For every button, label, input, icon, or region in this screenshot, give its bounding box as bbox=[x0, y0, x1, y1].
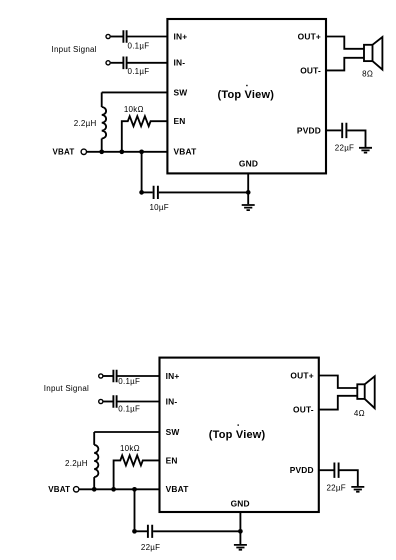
wire J3 to C5 bbox=[103, 375, 112, 377]
svg-text:OUT-: OUT- bbox=[293, 405, 314, 415]
capacitor C4 22µF bbox=[342, 123, 346, 138]
svg-text:(Top View): (Top View) bbox=[209, 429, 266, 441]
wire C5 to IN+ bbox=[118, 375, 160, 377]
pin OUT- label (U2) bbox=[293, 405, 314, 415]
IC U2 (bottom) package outline bbox=[160, 358, 319, 512]
wire SW pin bbox=[102, 91, 168, 93]
input terminal J1 (IN+) bbox=[106, 34, 110, 38]
ground symbol (bottom middle) bbox=[234, 545, 247, 550]
terminal VBAT (top) bbox=[81, 149, 86, 154]
pin EN label (U2) bbox=[166, 455, 178, 465]
svg-text:PVDD: PVDD bbox=[290, 465, 314, 475]
value label 10kΩ (R1) bbox=[124, 105, 144, 114]
value label 22µF (C8) bbox=[326, 483, 345, 492]
svg-text:GND: GND bbox=[239, 158, 258, 168]
label VBAT net (top) bbox=[53, 147, 75, 156]
value label 8Ω (SPK1) bbox=[362, 69, 373, 78]
junction node L1/VBAT bbox=[99, 149, 104, 154]
wire C2 to IN- bbox=[128, 62, 168, 64]
wire J1 to C1 bbox=[111, 36, 123, 38]
wire C1 to IN+ bbox=[128, 36, 168, 38]
IC U1 label (Top View) bbox=[218, 85, 275, 101]
svg-text:0.1µF: 0.1µF bbox=[118, 377, 140, 386]
svg-text:10kΩ: 10kΩ bbox=[124, 105, 144, 114]
speaker SPK1 bbox=[364, 37, 382, 70]
svg-text:VBAT: VBAT bbox=[166, 484, 190, 494]
inductor L2 2.2µH bbox=[94, 432, 98, 489]
resistor R2 10kΩ bbox=[114, 455, 160, 489]
svg-text:10kΩ: 10kΩ bbox=[120, 444, 140, 453]
capacitor C5 0.1µF bbox=[113, 370, 116, 383]
wire PVDD to C8 bbox=[319, 469, 334, 471]
input terminal J2 (IN-) bbox=[106, 61, 110, 65]
wire PVDD to C4 bbox=[326, 129, 341, 131]
pin OUT+ label (U1) bbox=[298, 31, 321, 41]
pin IN+ label (U1) bbox=[174, 32, 188, 42]
svg-text:OUT+: OUT+ bbox=[290, 370, 313, 380]
value label 10µF (C3) bbox=[149, 203, 168, 212]
wire C7 to GND node bbox=[153, 530, 240, 532]
value label 0.1µF (C6) bbox=[118, 404, 140, 413]
ground symbol (bottom right) bbox=[351, 487, 364, 492]
svg-text:VBAT: VBAT bbox=[174, 147, 198, 157]
pin OUT- label (U1) bbox=[300, 65, 321, 75]
capacitor C1 0.1µF bbox=[123, 30, 126, 43]
wire to C3 bbox=[142, 191, 153, 193]
svg-text:0.1µF: 0.1µF bbox=[118, 404, 140, 413]
inductor L1 2.2µH bbox=[102, 92, 106, 151]
svg-text:IN+: IN+ bbox=[166, 371, 180, 381]
svg-text:0.1µF: 0.1µF bbox=[128, 42, 150, 51]
junction node C7 left bbox=[132, 529, 137, 534]
svg-text:4Ω: 4Ω bbox=[354, 409, 365, 418]
svg-text:GND: GND bbox=[231, 498, 250, 508]
resistor R1 10kΩ bbox=[122, 116, 168, 152]
svg-text:SW: SW bbox=[174, 87, 188, 97]
svg-text:Input Signal: Input Signal bbox=[52, 45, 97, 54]
junction node C7 feed bbox=[132, 487, 137, 492]
pin IN- label (U2) bbox=[166, 396, 178, 406]
wire J4 to C6 bbox=[103, 401, 112, 403]
junction node R2/VBAT bbox=[111, 487, 116, 492]
junction node C3 left bbox=[139, 190, 144, 195]
wire VBAT to IC (bottom) bbox=[79, 488, 159, 490]
pin VBAT label (U1) bbox=[174, 147, 198, 157]
value label 0.1µF (C1) bbox=[128, 42, 150, 51]
capacitor C6 0.1µF bbox=[113, 395, 116, 408]
ground symbol (top right) bbox=[359, 148, 372, 153]
svg-text:EN: EN bbox=[174, 116, 186, 126]
wire C8 to ground bbox=[340, 470, 358, 486]
pin PVDD label (U2) bbox=[290, 465, 314, 475]
value label 10kΩ (R2) bbox=[120, 444, 140, 453]
pin GND label (U2) bbox=[231, 498, 250, 508]
svg-text:8Ω: 8Ω bbox=[362, 69, 373, 78]
speaker SPK2 bbox=[357, 376, 374, 408]
wire SW pin (bottom) bbox=[94, 431, 159, 433]
pin PVDD label (U1) bbox=[297, 125, 321, 135]
label VBAT net (bottom) bbox=[48, 485, 70, 494]
svg-text:OUT+: OUT+ bbox=[298, 31, 321, 41]
capacitor C8 22µF bbox=[334, 463, 338, 478]
ground symbol (top middle) bbox=[242, 205, 255, 210]
junction node C3 feed bbox=[139, 149, 144, 154]
wire J2 to C2 bbox=[111, 62, 123, 64]
value label 0.1µF (C5) bbox=[118, 377, 140, 386]
wire C4 to ground bbox=[347, 130, 365, 147]
svg-text:SW: SW bbox=[166, 427, 180, 437]
wire OUT- to speaker bbox=[326, 58, 364, 71]
svg-text:EN: EN bbox=[166, 455, 178, 465]
IC U1 (top) package outline bbox=[167, 19, 326, 173]
capacitor C7 22µF bbox=[148, 525, 152, 538]
junction node GND stub bbox=[246, 190, 251, 195]
pin SW label (U1) bbox=[174, 87, 188, 97]
svg-text:VBAT: VBAT bbox=[53, 147, 75, 156]
svg-text:2.2µH: 2.2µH bbox=[74, 119, 97, 128]
pin IN- label (U1) bbox=[174, 58, 186, 68]
wire GND pin stub bbox=[247, 173, 249, 204]
svg-text:0.1µF: 0.1µF bbox=[128, 67, 150, 76]
svg-text:IN-: IN- bbox=[174, 58, 186, 68]
IC U2 label (Top View) bbox=[209, 424, 266, 440]
svg-text:Input Signal: Input Signal bbox=[44, 384, 89, 393]
pin IN+ label (U2) bbox=[166, 371, 180, 381]
capacitor C3 10µF bbox=[154, 186, 158, 199]
junction node R1/VBAT bbox=[119, 149, 124, 154]
wire OUT+ to speaker bbox=[326, 37, 364, 49]
pin OUT+ label (U2) bbox=[290, 370, 313, 380]
wire VBAT down to C7 bbox=[134, 489, 136, 531]
svg-text:(Top View): (Top View) bbox=[218, 89, 275, 101]
svg-text:22µF: 22µF bbox=[141, 543, 160, 552]
label Input Signal (top) bbox=[52, 45, 97, 54]
wire C6 to IN- bbox=[118, 401, 160, 403]
terminal VBAT (bottom) bbox=[74, 487, 79, 492]
capacitor C2 0.1µF bbox=[123, 57, 126, 70]
input terminal J4 (IN-) bbox=[99, 399, 103, 403]
junction node L2/VBAT bbox=[92, 487, 97, 492]
value label 2.2µH (L1) bbox=[74, 119, 97, 128]
svg-text:22µF: 22µF bbox=[326, 483, 345, 492]
pin EN label (U1) bbox=[174, 116, 186, 126]
wire OUT- to speaker (bottom) bbox=[319, 396, 358, 410]
wire OUT+ to speaker (bottom) bbox=[319, 376, 358, 389]
pin VBAT label (U2) bbox=[166, 484, 190, 494]
svg-text:PVDD: PVDD bbox=[297, 125, 321, 135]
svg-text:22µF: 22µF bbox=[335, 144, 354, 153]
value label 22µF (C7) bbox=[141, 543, 160, 552]
svg-text:IN+: IN+ bbox=[174, 32, 188, 42]
value label 4Ω (SPK2) bbox=[354, 409, 365, 418]
wire VBAT down to C3 bbox=[141, 152, 143, 193]
svg-text:10µF: 10µF bbox=[149, 203, 168, 212]
value label 0.1µF (C2) bbox=[128, 67, 150, 76]
wire to C7 bbox=[135, 530, 148, 532]
svg-text:OUT-: OUT- bbox=[300, 65, 321, 75]
value label 22µF (C4) bbox=[335, 144, 354, 153]
svg-text:VBAT: VBAT bbox=[48, 485, 70, 494]
pin GND label (U1) bbox=[239, 158, 258, 168]
wire GND pin stub (bottom) bbox=[239, 512, 241, 544]
svg-text:2.2µH: 2.2µH bbox=[65, 459, 88, 468]
input terminal J3 (IN+) bbox=[99, 374, 103, 378]
junction node GND stub (bottom) bbox=[238, 529, 243, 534]
wire C3 to GND node bbox=[159, 191, 248, 193]
label Input Signal (bottom) bbox=[44, 384, 89, 393]
pin SW label (U2) bbox=[166, 427, 180, 437]
svg-text:IN-: IN- bbox=[166, 396, 178, 406]
value label 2.2µH (L2) bbox=[65, 459, 88, 468]
wire VBAT to IC bbox=[87, 151, 167, 153]
